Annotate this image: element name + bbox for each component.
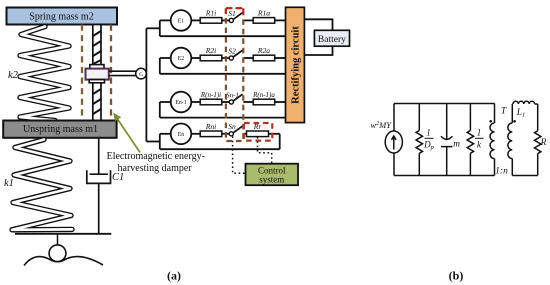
polarity dot primary [489, 120, 492, 123]
resistor Rni [200, 131, 222, 137]
generator G circle [136, 68, 147, 79]
rectifying circuit box [286, 7, 305, 122]
bottom bar joining k1 and C1 [15, 233, 111, 235]
resistor R(n-1)a [253, 99, 275, 105]
resistor 1/k branch [467, 104, 473, 176]
polarity dot secondary [513, 120, 516, 123]
screw rod upper (hatched) [93, 25, 101, 66]
svg-text:m: m [453, 140, 460, 150]
transformer secondary coil [508, 104, 512, 176]
dotted control line from Rr [258, 137, 272, 164]
resistor Rr [247, 131, 269, 137]
spring k1 [12, 140, 72, 230]
svg-text:S2: S2 [228, 46, 236, 55]
svg-text:1: 1 [426, 128, 431, 138]
svg-text:harvesting damper: harvesting damper [118, 163, 193, 174]
wire rectifier to battery top [304, 19, 332, 30]
svg-text:R(n-1)a: R(n-1)a [252, 91, 275, 99]
capacitor m branch [441, 104, 452, 176]
damper C1 [87, 138, 111, 234]
svg-text:1:n: 1:n [495, 167, 508, 177]
resistor R1i [200, 18, 222, 24]
svg-text:Sn: Sn [228, 122, 236, 131]
wheel [49, 245, 66, 262]
svg-text:R2i: R2i [205, 46, 217, 55]
source E2 [171, 48, 192, 69]
svg-text:1: 1 [477, 128, 482, 138]
dashed boundary right of damper [110, 25, 112, 121]
battery box [314, 30, 349, 46]
inductor L1 (secondary top) [512, 101, 537, 104]
switch S2 [229, 56, 233, 60]
shaft to generator (double line) [109, 71, 136, 75]
switch Sn [229, 132, 233, 136]
svg-text:Sn-1: Sn-1 [226, 91, 239, 99]
damper top collar [90, 65, 104, 69]
annotation arrow [113, 113, 140, 153]
svg-text:En: En [178, 132, 185, 138]
source En [171, 124, 192, 145]
unsprung mass m1 box [3, 121, 116, 138]
current source w2MY [385, 104, 402, 176]
loop 2 wires [160, 58, 286, 74]
resistor R1a [253, 18, 275, 24]
source En-1 [171, 92, 192, 113]
control system box [246, 164, 299, 186]
top rail [394, 103, 495, 105]
svg-text:R(n-1)i: R(n-1)i [200, 91, 221, 99]
spring k2 [20, 27, 69, 121]
resistor R2a [253, 55, 275, 61]
dashed box around Rr [244, 123, 272, 141]
transformer primary coil [490, 104, 494, 176]
screw rod lower (hatched) [93, 83, 101, 121]
loop 3 wires [160, 102, 286, 118]
svg-text:system: system [259, 175, 284, 185]
dashed boundary left of damper [81, 25, 83, 121]
resistor R(n-1)i [200, 99, 222, 105]
dashed box around switch column [226, 8, 243, 141]
svg-text:T: T [501, 107, 507, 117]
secondary bottom wire [512, 175, 537, 177]
switch S1 [229, 18, 233, 22]
svg-text:Rectifying circuit: Rectifying circuit [291, 26, 302, 104]
resistor R2i [200, 55, 222, 61]
svg-text:R: R [540, 138, 547, 148]
sprung mass m2 box [7, 8, 118, 25]
svg-text:(b): (b) [449, 269, 464, 283]
loop 1 wires [160, 20, 286, 36]
svg-text:Spring mass m2: Spring mass m2 [29, 12, 93, 23]
resistor 1/Dp branch [416, 104, 422, 176]
source E1 [171, 10, 192, 31]
loop 4 wires [160, 134, 280, 149]
common bus from generator [145, 28, 147, 141]
svg-text:k2: k2 [8, 70, 19, 81]
road profile [24, 257, 103, 266]
svg-text:Electromagnetic energy-: Electromagnetic energy- [107, 151, 205, 162]
svg-text:Rni: Rni [205, 122, 217, 131]
bus stub to loop 1 [146, 27, 159, 29]
svg-text:Unspring mass m1: Unspring mass m1 [23, 124, 98, 135]
damper bottom collar [89, 80, 104, 83]
wire rectifier to battery bottom [304, 46, 332, 55]
red dashes at top of switch box [226, 8, 243, 16]
wheel stem [57, 234, 59, 245]
svg-text:E1: E1 [178, 19, 185, 25]
dotted control line from switch Sn [233, 136, 246, 173]
damper housing box [86, 69, 109, 80]
svg-text:R1a: R1a [257, 9, 270, 18]
switch Sn-1 [229, 100, 233, 104]
svg-text:E2: E2 [178, 56, 185, 62]
svg-text:En-1: En-1 [175, 100, 186, 106]
bus stub to loop 4 [146, 141, 159, 143]
svg-text:k1: k1 [4, 178, 14, 189]
svg-text:R2a: R2a [257, 46, 270, 55]
svg-text:S1: S1 [228, 9, 236, 18]
svg-text:w2MY: w2MY [371, 120, 393, 130]
svg-text:G: G [139, 72, 143, 78]
resistor R (secondary) [535, 104, 541, 176]
bottom rail [394, 175, 495, 177]
svg-text:R1i: R1i [205, 9, 217, 18]
svg-text:Battery: Battery [318, 35, 346, 45]
svg-text:(a): (a) [167, 269, 181, 283]
